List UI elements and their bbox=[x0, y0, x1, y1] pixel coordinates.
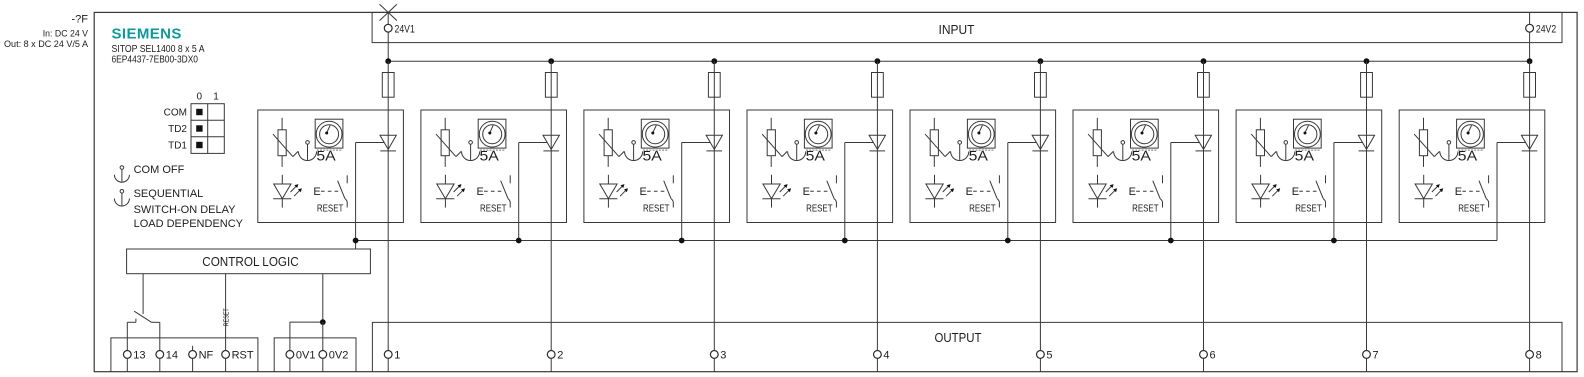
svg-text:5A: 5A bbox=[480, 147, 500, 163]
svg-text:SWITCH-ON DELAY: SWITCH-ON DELAY bbox=[134, 204, 237, 216]
svg-text:CONTROL LOGIC: CONTROL LOGIC bbox=[202, 254, 299, 269]
DIP switch COM position 0 bbox=[196, 109, 202, 115]
DIP switch table bbox=[191, 104, 224, 154]
wire NF stub bbox=[192, 346, 194, 351]
wire fuse to output terminal ch2 bbox=[550, 97, 552, 350]
rotary dial ch7 bbox=[1294, 119, 1322, 150]
svg-text:RESET: RESET bbox=[480, 203, 507, 214]
rotary dial ch1 bbox=[315, 119, 343, 150]
junction dot input bus ch8 bbox=[1527, 58, 1533, 64]
svg-text:E: E bbox=[1129, 186, 1136, 198]
delay hook icon ch4 bbox=[788, 141, 806, 161]
svg-text:5A: 5A bbox=[969, 147, 989, 163]
delay hook icon ch8 bbox=[1440, 141, 1458, 161]
svg-text:TD1: TD1 bbox=[168, 141, 187, 152]
channel box ch5 bbox=[910, 110, 1056, 223]
svg-text:-?F: -?F bbox=[72, 14, 89, 26]
svg-text:24V1: 24V1 bbox=[395, 23, 415, 35]
junction dot 0V bbox=[320, 319, 326, 325]
terminal 0V2 bbox=[319, 351, 327, 359]
svg-text:E: E bbox=[1292, 186, 1299, 198]
electronic reset switch ch7 bbox=[1292, 175, 1326, 207]
wire fuse to output terminal ch4 bbox=[876, 97, 878, 350]
svg-text:RESET: RESET bbox=[1132, 203, 1159, 214]
channel box ch2 bbox=[421, 110, 567, 223]
thyristor ch8 bbox=[1521, 135, 1537, 151]
wire bus to fuse ch2 bbox=[550, 61, 552, 72]
electronic reset switch ch6 bbox=[1129, 175, 1163, 207]
gate wire ch8 bbox=[1497, 142, 1526, 144]
LED ch8 bbox=[1415, 175, 1444, 208]
wire fuse to output terminal ch8 bbox=[1529, 97, 1531, 350]
fuse F8 bbox=[1524, 73, 1536, 98]
svg-text:OUTPUT: OUTPUT bbox=[935, 330, 982, 345]
delay hook icon ch7 bbox=[1277, 141, 1295, 161]
wire control logic to 0V junction bbox=[322, 274, 324, 322]
fuse F2 bbox=[545, 73, 557, 98]
svg-text:0: 0 bbox=[197, 92, 203, 103]
svg-text:E: E bbox=[477, 186, 484, 198]
terminal 13 bbox=[123, 351, 131, 359]
potentiometer ch8 bbox=[1414, 118, 1439, 167]
fuse F4 bbox=[872, 73, 884, 98]
wire fuse to output terminal ch7 bbox=[1366, 97, 1368, 350]
electronic reset switch ch3 bbox=[640, 175, 674, 207]
wire RST stub below bbox=[225, 358, 227, 371]
svg-text:RESET: RESET bbox=[1458, 203, 1485, 214]
junction dot input bus ch5 bbox=[1038, 58, 1044, 64]
wire bus to fuse ch7 bbox=[1366, 61, 1368, 72]
terminal 24V1 bbox=[384, 24, 392, 32]
fuse F7 bbox=[1361, 73, 1373, 98]
svg-text:2: 2 bbox=[557, 349, 563, 361]
wire 0V1 to junction bbox=[290, 321, 323, 323]
wire control logic to RST bbox=[225, 274, 227, 351]
terminal block 0V1 0V2 bbox=[274, 338, 356, 372]
DIP switch TD2 position 0 bbox=[196, 125, 202, 131]
junction dot control bus ch2 bbox=[516, 238, 522, 244]
junction dot input bus ch7 bbox=[1364, 58, 1370, 64]
terminal RST bbox=[222, 351, 230, 359]
electronic reset switch ch1 bbox=[313, 175, 347, 207]
svg-text:5A: 5A bbox=[1295, 147, 1315, 163]
electronic reset switch ch2 bbox=[477, 175, 511, 207]
junction dot control bus ch6 bbox=[1168, 238, 1174, 244]
svg-text:4: 4 bbox=[883, 349, 889, 361]
channel 4 group bbox=[747, 58, 893, 371]
svg-text:RESET: RESET bbox=[221, 308, 230, 326]
terminal block 13 14 NF RST bbox=[111, 338, 258, 372]
svg-text:6EP4437-7EB00-3DX0: 6EP4437-7EB00-3DX0 bbox=[112, 55, 199, 66]
svg-text:NF: NF bbox=[199, 349, 214, 361]
channel 8 group bbox=[1399, 58, 1545, 371]
DIP switch TD1 position 0 bbox=[196, 142, 202, 148]
wire control bus drop to control logic bbox=[355, 241, 357, 250]
thyristor ch6 bbox=[1195, 135, 1211, 151]
svg-text:In: DC 24 V: In: DC 24 V bbox=[43, 29, 89, 40]
svg-text:5A: 5A bbox=[1458, 147, 1478, 163]
wire bus to fuse ch4 bbox=[876, 61, 878, 72]
LED ch2 bbox=[436, 175, 465, 208]
potentiometer ch5 bbox=[925, 118, 950, 167]
svg-text:COM OFF: COM OFF bbox=[134, 164, 185, 176]
thyristor ch2 bbox=[543, 135, 559, 151]
svg-text:INPUT: INPUT bbox=[939, 22, 975, 37]
junction dot input bus ch6 bbox=[1201, 58, 1207, 64]
svg-text:E: E bbox=[966, 186, 973, 198]
svg-text:E: E bbox=[803, 186, 810, 198]
junction dot control bus ch5 bbox=[1005, 238, 1011, 244]
wire bus to fuse ch1 bbox=[387, 61, 389, 72]
wire bus to fuse ch3 bbox=[713, 61, 715, 72]
LED ch4 bbox=[762, 175, 791, 208]
wire 0V1 riser bbox=[289, 322, 291, 350]
gate wire ch5 bbox=[1008, 142, 1037, 144]
channel box ch3 bbox=[584, 110, 730, 223]
svg-text:5A: 5A bbox=[806, 147, 826, 163]
wire fuse to output terminal ch1 bbox=[387, 97, 389, 350]
gate wire ch4 bbox=[845, 142, 874, 144]
channel box ch7 bbox=[1236, 110, 1382, 223]
svg-text:5A: 5A bbox=[1132, 147, 1152, 163]
svg-text:E: E bbox=[1455, 186, 1462, 198]
fuse F1 bbox=[382, 73, 394, 98]
potentiometer ch2 bbox=[436, 118, 461, 167]
gate wire ch7 bbox=[1334, 142, 1363, 144]
svg-text:5A: 5A bbox=[316, 147, 336, 163]
rotary dial ch8 bbox=[1457, 119, 1485, 150]
fuse F3 bbox=[708, 73, 720, 98]
terminal 24V2 bbox=[1526, 24, 1534, 32]
svg-text:SITOP SEL1400 8 x 5 A: SITOP SEL1400 8 x 5 A bbox=[112, 44, 205, 55]
svg-text:COM: COM bbox=[164, 108, 187, 119]
thyristor ch3 bbox=[706, 135, 722, 151]
gate wire ch6 bbox=[1171, 142, 1200, 144]
supply crossing mark X bbox=[380, 4, 397, 20]
svg-text:0V2: 0V2 bbox=[329, 349, 349, 361]
svg-text:TD2: TD2 bbox=[168, 124, 187, 135]
LED ch5 bbox=[925, 175, 954, 208]
relay contact 13-14 bbox=[127, 311, 160, 322]
wire 24V1 to bus bbox=[387, 12, 389, 24]
thyristor ch7 bbox=[1358, 135, 1374, 151]
wire bus to fuse ch8 bbox=[1529, 61, 1531, 72]
terminal 0V1 bbox=[286, 351, 294, 359]
svg-text:E: E bbox=[313, 186, 320, 198]
channel 7 group bbox=[1236, 58, 1382, 371]
LED ch3 bbox=[599, 175, 628, 208]
wire 0V2 riser bbox=[322, 322, 324, 350]
input distribution bus bbox=[388, 60, 1529, 62]
svg-text:RST: RST bbox=[232, 349, 254, 361]
terminal 8 bbox=[1529, 358, 1531, 371]
svg-text:5: 5 bbox=[1046, 349, 1052, 361]
potentiometer ch7 bbox=[1251, 118, 1276, 167]
legend icon sequential delay bbox=[114, 190, 129, 207]
svg-text:8: 8 bbox=[1536, 349, 1542, 361]
wire terminal 13 riser bbox=[126, 322, 128, 350]
junction dot control bus ch3 bbox=[679, 238, 685, 244]
wire bus to fuse ch5 bbox=[1039, 61, 1041, 72]
junction dot input bus ch1 bbox=[385, 58, 391, 64]
potentiometer ch4 bbox=[762, 118, 787, 167]
terminal 14 bbox=[156, 351, 164, 359]
svg-text:1: 1 bbox=[394, 349, 400, 361]
svg-text:RESET: RESET bbox=[806, 203, 833, 214]
svg-text:6: 6 bbox=[1210, 349, 1216, 361]
junction dot control bus ch4 bbox=[842, 238, 848, 244]
gate wire ch1 bbox=[356, 142, 385, 144]
svg-text:Out: 8 x DC 24 V/5 A: Out: 8 x DC 24 V/5 A bbox=[4, 39, 89, 50]
fuse F6 bbox=[1198, 73, 1210, 98]
wire control logic to contact bbox=[142, 274, 144, 314]
thyristor ch4 bbox=[869, 135, 885, 151]
delay hook icon ch1 bbox=[298, 141, 316, 161]
fuse F5 bbox=[1035, 73, 1047, 98]
wire bus to fuse ch6 bbox=[1203, 61, 1205, 72]
gate wire ch2 bbox=[519, 142, 548, 144]
svg-text:5A: 5A bbox=[643, 147, 663, 163]
channel box ch6 bbox=[1073, 110, 1219, 223]
svg-text:0V1: 0V1 bbox=[296, 349, 316, 361]
legend icon COM OFF bbox=[114, 166, 129, 183]
junction dot input bus ch4 bbox=[875, 58, 881, 64]
svg-text:LOAD DEPENDENCY: LOAD DEPENDENCY bbox=[134, 218, 244, 230]
junction dot control bus ch1 bbox=[353, 238, 359, 244]
channel box ch1 bbox=[258, 110, 404, 223]
thyristor ch5 bbox=[1032, 135, 1048, 151]
wire fuse to output terminal ch3 bbox=[713, 97, 715, 350]
LED ch6 bbox=[1089, 175, 1118, 208]
control logic box bbox=[127, 249, 371, 274]
channel 2 group bbox=[421, 58, 567, 371]
delay hook icon ch6 bbox=[1114, 141, 1132, 161]
terminal 5 bbox=[1039, 358, 1041, 371]
svg-text:RESET: RESET bbox=[643, 203, 670, 214]
thyristor ch1 bbox=[380, 135, 396, 151]
potentiometer ch1 bbox=[273, 118, 298, 167]
channel box ch4 bbox=[747, 110, 893, 223]
channel box ch8 bbox=[1399, 110, 1545, 223]
wire terminal 14 riser bbox=[159, 322, 161, 350]
junction dot control bus ch7 bbox=[1331, 238, 1337, 244]
electronic reset switch ch8 bbox=[1455, 175, 1489, 207]
svg-text:SIEMENS: SIEMENS bbox=[112, 25, 182, 42]
junction dot input bus ch2 bbox=[548, 58, 554, 64]
svg-text:14: 14 bbox=[166, 349, 178, 361]
terminal 3 bbox=[713, 358, 715, 371]
rotary dial ch4 bbox=[804, 119, 832, 150]
delay hook icon ch5 bbox=[951, 141, 969, 161]
wire fuse to output terminal ch6 bbox=[1203, 97, 1205, 350]
delay hook icon ch2 bbox=[462, 141, 480, 161]
junction dot input bus ch3 bbox=[711, 58, 717, 64]
svg-text:3: 3 bbox=[720, 349, 726, 361]
LED ch7 bbox=[1252, 175, 1281, 208]
terminal 2 bbox=[550, 358, 552, 371]
svg-text:1: 1 bbox=[213, 92, 219, 103]
svg-text:13: 13 bbox=[133, 349, 145, 361]
rotary dial ch5 bbox=[967, 119, 995, 150]
electronic reset switch ch5 bbox=[966, 175, 1000, 207]
channel 6 group bbox=[1073, 58, 1219, 371]
svg-text:RESET: RESET bbox=[317, 203, 344, 214]
control bus to CONTROL LOGIC bbox=[356, 240, 1497, 242]
potentiometer ch6 bbox=[1088, 118, 1113, 167]
channel 5 group bbox=[910, 58, 1056, 371]
delay hook icon ch3 bbox=[625, 141, 643, 161]
terminal 6 bbox=[1203, 358, 1205, 371]
channel 1 group bbox=[258, 58, 404, 371]
channel 3 group bbox=[584, 58, 730, 371]
terminal 4 bbox=[876, 358, 878, 371]
rotary dial ch3 bbox=[641, 119, 669, 150]
terminal NF bbox=[189, 351, 197, 359]
svg-text:7: 7 bbox=[1373, 349, 1379, 361]
rotary dial ch2 bbox=[478, 119, 506, 150]
terminal 7 bbox=[1366, 358, 1368, 371]
potentiometer ch3 bbox=[599, 118, 624, 167]
terminal 1 bbox=[387, 358, 389, 371]
electronic reset switch ch4 bbox=[803, 175, 837, 207]
svg-text:RESET: RESET bbox=[969, 203, 996, 214]
svg-text:E: E bbox=[640, 186, 647, 198]
svg-text:24V2: 24V2 bbox=[1536, 23, 1556, 35]
OUTPUT bus box bbox=[372, 322, 1562, 371]
INPUT bus box bbox=[372, 12, 1562, 42]
rotary dial ch6 bbox=[1131, 119, 1159, 150]
wire fuse to output terminal ch5 bbox=[1039, 97, 1041, 350]
wire 24V2 to bus bbox=[1529, 12, 1531, 24]
svg-text:SEQUENTIAL: SEQUENTIAL bbox=[134, 188, 204, 200]
svg-text:RESET: RESET bbox=[1295, 203, 1322, 214]
gate wire ch3 bbox=[682, 142, 711, 144]
LED ch1 bbox=[273, 175, 302, 208]
